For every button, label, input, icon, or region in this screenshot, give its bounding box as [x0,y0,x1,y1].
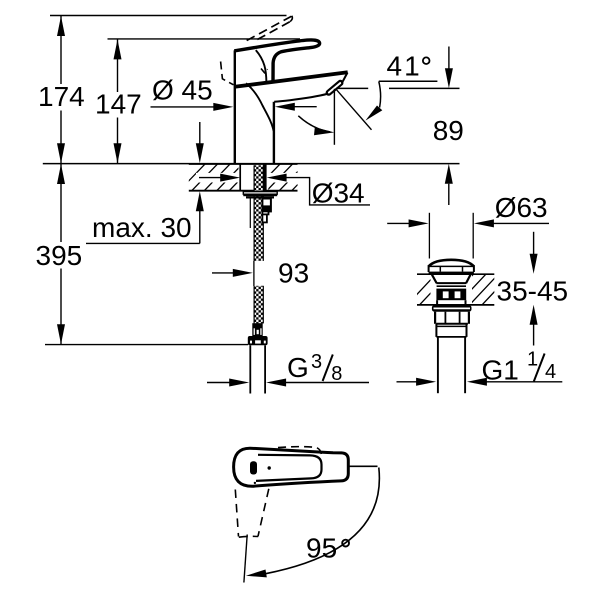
sink deck right view top line [417,273,494,275]
flexible supply hose braided upper [254,165,263,261]
hatch clearance casings [196,173,242,183]
hose connector nut G3/8 [248,336,268,345]
faucet shank left wall [239,164,241,190]
svg-text:95: 95 [306,533,337,564]
dimension 35-45 lower arrow [533,324,535,345]
counter deck bottom line [189,190,298,192]
handle small dot [268,466,271,469]
dimension Ø34 left arrow [199,177,221,179]
svg-text:Ø 45: Ø 45 [152,75,213,106]
svg-text:4: 4 [545,361,556,383]
dashed closed handle bottom [239,535,258,538]
extension line 147 top [108,38,301,40]
dimension 147 line [117,39,119,92]
faucet body right edge [273,102,275,164]
bottom reference line 395 [45,344,248,346]
dashed raised lever tip [290,16,292,22]
handle pivot black dot [250,461,257,474]
dimension 89 line [448,47,450,70]
dimension max30 upper arrow [199,122,201,144]
flexible supply hose braided lower [254,286,263,324]
counter deck top line [43,163,460,165]
handle small tick [254,482,256,484]
spout to body fillet curve [246,83,274,131]
drain nut lower step [435,324,437,337]
sink deck right view bottom line [417,304,494,306]
white cover for faucet shank in deck [239,164,269,191]
spout outlet face and step [341,73,348,83]
mounting stud and nut beside hose [262,199,271,212]
svg-text:35-45: 35-45 [497,275,569,306]
svg-text:G: G [287,352,309,383]
dashed raised lever lower edge [257,22,290,40]
dashed raised lever upper edge [244,16,292,42]
drain tailpipe G1 1/4 [437,337,439,393]
svg-text:max. 30: max. 30 [92,212,192,243]
fraction slash G3/8 [323,355,333,382]
svg-text:G1: G1 [482,355,519,386]
dimension 174 line [60,16,62,84]
hose edge line through 93 gap [253,261,255,286]
svg-text:174: 174 [38,81,85,112]
spray direction line 41 degrees [336,89,372,130]
lever pivot dome curve [256,50,267,82]
dimension 395 line [60,164,62,242]
drain Ø63 extension lines [428,213,430,259]
handle plan view outer outline [234,448,349,486]
dimension G1 1/4 arrows [397,381,418,383]
svg-text:147: 147 [95,89,142,120]
deck hatching right view [406,273,512,306]
spout underside curve [274,94,327,102]
faucet body left edge [234,50,236,163]
dimension max30 lower arrow and bracket [199,211,201,244]
faucet lever handle outline [234,40,319,81]
deck hatching left view [178,163,319,192]
svg-text:8: 8 [331,363,342,385]
dimension Ø45 left arrow [151,106,215,108]
aerator [329,83,341,93]
drain hex nut [434,312,436,324]
extension line 174 top [50,15,287,17]
svg-text:395: 395 [36,240,83,271]
spout outlet horizontal reference line [336,87,368,89]
G3/8 threaded pipe [249,345,251,393]
dimension Ø63 arrows [387,222,409,224]
label 41 degrees [423,57,430,64]
drain flange dome [429,260,474,267]
closed handle centerline [244,535,247,583]
41 degree label underline [379,80,438,82]
fraction slash G1 1/4 [534,354,545,382]
mounting washer under deck [243,192,277,195]
spout top edge [235,72,348,87]
svg-text:89: 89 [433,115,464,146]
drain locking washer [432,305,472,312]
dimension Ø34 right arrow with leader to label [267,174,287,182]
white cover for drain body in deck [431,274,473,305]
shank tail line [249,199,251,229]
41 degree leader curve with arrow [379,81,381,107]
hose ferrule [252,323,262,336]
svg-text:93: 93 [278,257,309,288]
dashed open position arc over handle [278,447,321,454]
41 degree dimension arc with arrow at plumb line [298,116,330,132]
faucet shank right wall thick [263,164,267,190]
dimension Ø45 right arrow [294,106,317,108]
drain body neck taper [432,274,437,283]
svg-text:Ø34: Ø34 [312,178,365,209]
dashed closed handle right edge [258,489,269,537]
handle plan view inner contour [256,455,322,481]
drain body window band [436,289,466,301]
dimension 35-45 upper arrow [533,232,535,254]
open handle reference line [348,465,377,467]
dimension 93 arrow [212,272,234,274]
dimension G3/8 arrows [207,382,230,384]
label 95 degrees [342,540,349,547]
dashed raised lever front outline [221,62,234,85]
svg-text:1: 1 [527,349,538,371]
dashed raised lever back corner [261,69,268,73]
svg-text:41: 41 [387,51,422,82]
95 degree swing arc with arrow [265,468,379,574]
drain flange base plate [429,272,474,274]
svg-text:Ø63: Ø63 [495,192,548,223]
dashed closed handle left edge [235,490,238,537]
svg-text:3: 3 [311,351,322,373]
vertical plumb line from aerator [333,89,335,145]
